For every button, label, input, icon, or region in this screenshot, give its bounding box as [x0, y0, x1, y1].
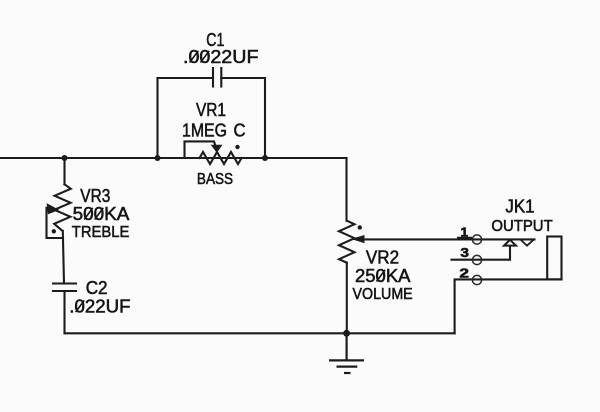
- svg-text:VR3: VR3: [80, 186, 110, 206]
- svg-text:BASS: BASS: [197, 171, 233, 188]
- wire VR1 wiper bracket: [185, 141, 216, 158]
- wire VR2 wiper to JK1 pin1 tip contact: [360, 238, 535, 240]
- resistor VR2 zigzag: [339, 221, 355, 263]
- wire JK1 pin3 to switch: [452, 246, 511, 260]
- svg-text:C: C: [234, 121, 246, 141]
- JK1 switch triangle: [504, 240, 516, 246]
- JK1 tip spring contact: [521, 239, 535, 245]
- wire drop to VR2: [345, 158, 347, 221]
- junction node at C1 loop right: [262, 155, 268, 161]
- junction node at C1 loop left: [155, 155, 161, 161]
- value label .0022UF: [183, 47, 259, 67]
- value label 250KA: [355, 266, 411, 286]
- svg-text:250KA: 250KA: [355, 266, 411, 286]
- svg-text:VOLUME: VOLUME: [353, 286, 413, 303]
- svg-text:3: 3: [460, 245, 469, 260]
- JK1 pin3 terminal circle: [472, 255, 481, 264]
- wire C1 left lead: [158, 77, 214, 79]
- svg-text:500KA: 500KA: [73, 204, 130, 224]
- VR2 CW marker dot: [358, 225, 362, 229]
- ground: [329, 333, 364, 373]
- svg-text:1: 1: [460, 225, 468, 240]
- VR3 wiper arrow: [48, 205, 57, 213]
- wire C1 right lead: [221, 77, 265, 79]
- wire main input bus: [0, 157, 347, 159]
- wire C2 to bottom bus: [63, 291, 65, 333]
- wire bottom bus: [65, 332, 455, 334]
- wire C1 loop left vertical: [156, 78, 158, 158]
- VR3 CW marker dot: [52, 229, 56, 233]
- resistor VR3 zigzag: [54, 184, 71, 231]
- wire VR2 to bottom bus: [346, 263, 348, 334]
- svg-text:OUTPUT: OUTPUT: [491, 218, 553, 235]
- capacitor C1: [213, 68, 221, 87]
- wire JK1 pin2 from corner through circle to sleeve: [455, 279, 562, 333]
- junction node at ground: [343, 330, 350, 337]
- svg-text:2: 2: [459, 266, 469, 281]
- wire pin1 label underline: [458, 237, 471, 239]
- svg-text:JK1: JK1: [505, 197, 534, 217]
- capacitor C2: [53, 284, 76, 292]
- JK1 plug sleeve body: [547, 237, 561, 280]
- JK1 pin2 terminal circle: [472, 275, 481, 284]
- wire VR3 wiper bracket: [47, 208, 64, 238]
- wire VR3 branch vertical: [63, 158, 65, 184]
- value label 1MEG C: [182, 121, 246, 141]
- svg-text:VR1: VR1: [196, 100, 226, 120]
- svg-text:C2: C2: [86, 278, 108, 298]
- resistor VR1 zigzag: [200, 152, 242, 164]
- wire VR3 to C2: [63, 231, 64, 284]
- svg-text:TREBLE: TREBLE: [72, 224, 130, 241]
- svg-text:.022UF: .022UF: [69, 297, 130, 317]
- VR1 CW marker dot: [235, 145, 239, 149]
- value label 500KA: [73, 204, 130, 224]
- VR1 wiper arrow: [212, 145, 222, 152]
- JK1 pin1 terminal circle: [472, 235, 481, 244]
- value label .022UF: [69, 297, 130, 317]
- junction node at VR3 branch: [62, 155, 68, 161]
- VR2 wiper arrow: [355, 236, 364, 242]
- wire C1 loop right vertical: [264, 78, 266, 158]
- svg-text:1MEG: 1MEG: [182, 121, 227, 141]
- svg-text:VR2: VR2: [366, 248, 399, 268]
